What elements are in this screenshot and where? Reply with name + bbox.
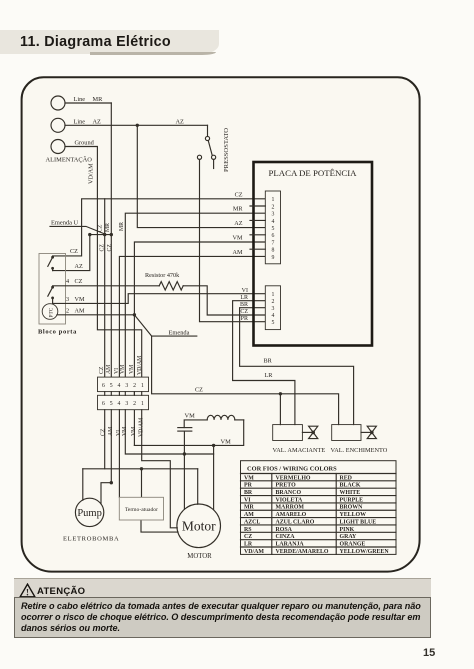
svg-text:PLACA DE POTÊNCIA: PLACA DE POTÊNCIA xyxy=(269,168,358,178)
color table grid xyxy=(241,473,397,475)
valve ENCHIMENTO symbol xyxy=(361,431,372,433)
svg-text:PRESSOSTATO: PRESSOSTATO xyxy=(223,128,230,172)
svg-text:VI: VI xyxy=(242,288,248,294)
svg-text:CZ: CZ xyxy=(235,191,243,198)
svg-text:GRAY: GRAY xyxy=(340,534,358,540)
svg-text:MR: MR xyxy=(119,222,125,231)
svg-text:CZ: CZ xyxy=(75,278,83,285)
svg-text:Line: Line xyxy=(74,96,86,103)
svg-text:CZ: CZ xyxy=(99,244,105,252)
wire AZ branch down to placa pin5 xyxy=(137,125,265,227)
svg-text:3: 3 xyxy=(271,306,274,312)
svg-text:ROSA: ROSA xyxy=(276,527,293,533)
svg-text:CZ: CZ xyxy=(70,248,78,255)
svg-text:PRETO: PRETO xyxy=(276,483,297,489)
svg-text:RED: RED xyxy=(340,475,352,481)
svg-text:PTC: PTC xyxy=(49,307,55,317)
wire CZ tap down to emenda U xyxy=(104,199,106,235)
svg-text:MR: MR xyxy=(93,96,104,103)
svg-text:Termo-atuador: Termo-atuador xyxy=(125,507,158,513)
node AZ junction xyxy=(136,124,139,127)
thermo actuator box xyxy=(119,497,163,520)
svg-text:Line: Line xyxy=(74,118,86,125)
svg-text:BR: BR xyxy=(240,302,248,308)
svg-text:2: 2 xyxy=(133,383,136,389)
color table frame xyxy=(241,461,397,555)
svg-text:1: 1 xyxy=(141,383,144,389)
wire BR placa pin3 to valve ENCHIMENTO xyxy=(240,308,354,425)
svg-text:1: 1 xyxy=(271,197,274,203)
node valve common junction xyxy=(279,392,282,395)
svg-text:1: 1 xyxy=(271,292,274,298)
wire AZ emenda U down to blocoporta xyxy=(53,235,90,271)
svg-text:CZ: CZ xyxy=(195,387,203,394)
resistor R1 470k xyxy=(159,282,183,290)
svg-text:VM: VM xyxy=(233,235,243,242)
wire capacitor junction down to motor xyxy=(183,454,185,509)
svg-text:Resistor 470k: Resistor 470k xyxy=(145,272,180,279)
svg-text:Ground: Ground xyxy=(75,140,95,147)
svg-text:VI: VI xyxy=(114,368,120,374)
stub CN1 pin2 xyxy=(250,205,265,207)
svg-text:Emenda U: Emenda U xyxy=(51,219,79,226)
svg-text:BLACK: BLACK xyxy=(340,483,361,489)
svg-text:AM: AM xyxy=(75,308,85,315)
svg-text:BROWN: BROWN xyxy=(340,505,364,511)
svg-text:LR: LR xyxy=(244,541,253,547)
svg-text:ELETROBOMBA: ELETROBOMBA xyxy=(63,536,119,543)
wire pressostato left contact down to placa PR pin5 xyxy=(200,160,266,322)
svg-text:WHITE: WHITE xyxy=(340,490,361,496)
svg-text:4: 4 xyxy=(118,401,121,407)
valve AMACIANTE body xyxy=(273,425,303,441)
svg-text:VAL. AMACIANTE: VAL. AMACIANTE xyxy=(273,447,326,454)
node motor right junction xyxy=(212,444,215,447)
svg-text:AZ: AZ xyxy=(234,220,242,227)
wire CZ block pin6 down to pump-motor line xyxy=(104,410,106,469)
node emenda splice dot xyxy=(133,313,136,316)
svg-text:CZ: CZ xyxy=(244,534,252,540)
svg-text:AZUL CLARO: AZUL CLARO xyxy=(276,519,315,525)
svg-text:2: 2 xyxy=(66,308,69,315)
warning text box xyxy=(14,597,431,638)
svg-text:VM: VM xyxy=(75,296,85,303)
svg-text:ALIMENTAÇÃO: ALIMENTAÇÃO xyxy=(46,156,93,164)
warning heading ATENÇÃO xyxy=(37,586,85,597)
node capacitor junction xyxy=(183,452,186,455)
wire AM block pin5 down to pump xyxy=(101,410,111,504)
svg-text:VD/AM: VD/AM xyxy=(139,418,145,437)
svg-text:2: 2 xyxy=(133,401,136,407)
terminal J2 Line AZ xyxy=(51,118,65,132)
wire MR vertical from Line MR to emenda U xyxy=(110,103,112,235)
valve ENCHIMENTO body xyxy=(332,425,361,441)
wire VM coil line xyxy=(134,420,243,446)
valve AMACIANTE symbol xyxy=(302,431,313,433)
svg-text:CZ: CZ xyxy=(99,366,105,374)
svg-text:CZ: CZ xyxy=(107,244,113,252)
svg-text:MR: MR xyxy=(244,505,255,511)
svg-text:VI: VI xyxy=(116,430,122,436)
svg-text:4: 4 xyxy=(66,278,69,285)
svg-text:1: 1 xyxy=(141,401,144,407)
svg-text:CZ: CZ xyxy=(101,428,107,436)
svg-text:VM: VM xyxy=(120,365,126,374)
wire VM placa pin7 long vertical to coil line xyxy=(134,242,265,445)
wire termo-atuador bottom to motor xyxy=(141,520,178,532)
svg-text:LR: LR xyxy=(240,295,248,301)
wire ground VD/AM down and over to block xyxy=(65,147,142,378)
wire CZ emenda U down to block pin6 xyxy=(104,235,106,378)
svg-text:6: 6 xyxy=(271,233,274,239)
svg-text:MR: MR xyxy=(233,206,244,213)
wire pump to motor line xyxy=(83,468,198,470)
svg-text:9: 9 xyxy=(271,255,274,261)
label pointer Emenda U xyxy=(50,226,104,233)
wire 3 VM blocoporta to placa VI pin1 xyxy=(53,294,266,304)
svg-text:MOTOR: MOTOR xyxy=(187,553,212,560)
svg-text:3: 3 xyxy=(125,401,128,407)
svg-text:PURPLE: PURPLE xyxy=(340,497,364,503)
svg-text:3: 3 xyxy=(125,383,128,389)
svg-text:4: 4 xyxy=(118,383,121,389)
svg-text:YELLOW: YELLOW xyxy=(340,512,367,518)
wire AM placa pin9 down to block pin4 xyxy=(119,256,265,377)
wire resistor to placa pin4 xyxy=(183,286,265,315)
svg-text:6: 6 xyxy=(102,383,105,389)
svg-text:LIGHT BLUE: LIGHT BLUE xyxy=(340,519,377,525)
page number xyxy=(423,647,435,659)
connector CN2 body xyxy=(265,286,280,330)
svg-text:YELLOW/GREEN: YELLOW/GREEN xyxy=(340,549,390,555)
svg-text:AM: AM xyxy=(233,249,243,256)
node emenda U dot 3 xyxy=(110,233,113,236)
svg-text:AM: AM xyxy=(244,512,254,518)
wire VD/AM block pin1 down to motor left xyxy=(142,410,178,528)
power board PLACA DE POTENCIA U1 xyxy=(254,162,373,346)
svg-text:Motor: Motor xyxy=(182,518,216,533)
svg-text:AZ: AZ xyxy=(93,118,102,125)
svg-text:AMARELO: AMARELO xyxy=(276,512,307,518)
svg-text:3: 3 xyxy=(271,212,274,218)
svg-text:AZ: AZ xyxy=(176,118,185,125)
svg-text:LARANJA: LARANJA xyxy=(276,541,305,547)
blocoporta housing xyxy=(39,254,66,325)
svg-text:CZ: CZ xyxy=(240,309,248,315)
svg-text:MR: MR xyxy=(105,223,111,232)
wire MR emenda U down to block pin5 xyxy=(110,235,112,378)
node emenda U dot 1 xyxy=(88,233,91,236)
terminal J3 Ground xyxy=(51,140,65,154)
wire VI block pin4 down to termo-atuador xyxy=(118,410,120,498)
svg-text:COR FIOS / WIRING COLORS: COR FIOS / WIRING COLORS xyxy=(247,465,337,472)
splice Emenda U bar xyxy=(90,234,112,236)
svg-text:AZCL: AZCL xyxy=(244,519,260,525)
wire block links xyxy=(104,392,106,396)
svg-text:PINK: PINK xyxy=(340,527,355,533)
wire junction down to motor xyxy=(213,445,215,510)
svg-text:Bloco porta: Bloco porta xyxy=(38,329,77,336)
stub CN1 pin8 xyxy=(250,248,265,250)
connector block CN3 xyxy=(98,377,149,392)
svg-text:4: 4 xyxy=(271,219,274,225)
wire tap down to termo-atuador xyxy=(141,469,143,498)
svg-text:ORANGE: ORANGE xyxy=(340,541,366,547)
svg-text:VD/AM: VD/AM xyxy=(88,163,95,184)
svg-text:VM: VM xyxy=(131,427,137,436)
motor M1 xyxy=(177,504,221,548)
svg-text:3: 3 xyxy=(66,296,69,303)
inductor L1 xyxy=(235,419,244,421)
connector block CN4 xyxy=(98,395,149,409)
svg-text:RS: RS xyxy=(244,527,252,533)
svg-text:6: 6 xyxy=(102,401,105,407)
svg-text:BR: BR xyxy=(264,358,273,365)
svg-text:5: 5 xyxy=(110,401,113,407)
svg-text:VI: VI xyxy=(244,497,251,503)
svg-text:8: 8 xyxy=(271,248,274,254)
pump P1 xyxy=(75,498,103,526)
svg-text:VM: VM xyxy=(221,438,232,445)
svg-text:2: 2 xyxy=(271,204,274,210)
svg-text:VM: VM xyxy=(185,412,196,419)
svg-text:BR: BR xyxy=(244,490,253,496)
svg-text:VM: VM xyxy=(122,427,128,436)
pressostato switch S1 xyxy=(207,125,209,136)
svg-text:VAL. ENCHIMENTO: VAL. ENCHIMENTO xyxy=(331,447,388,454)
connector CN1 body xyxy=(265,191,280,264)
wire pump left lead xyxy=(82,469,84,500)
svg-text:CZ: CZ xyxy=(98,224,104,232)
svg-text:PR: PR xyxy=(241,316,248,322)
svg-text:4: 4 xyxy=(271,313,274,319)
svg-text:CINZA: CINZA xyxy=(276,534,296,540)
svg-text:VD/AM: VD/AM xyxy=(244,549,264,555)
svg-text:VERMELHO: VERMELHO xyxy=(276,475,311,481)
svg-text:5: 5 xyxy=(271,320,274,326)
svg-text:2: 2 xyxy=(271,299,274,305)
svg-text:LR: LR xyxy=(265,372,274,379)
wire emenda diagonal xyxy=(134,315,151,336)
warning triangle icon xyxy=(20,584,35,597)
svg-text:Pump: Pump xyxy=(77,508,102,519)
wire Line AZ horizontal xyxy=(65,124,208,126)
svg-text:7: 7 xyxy=(271,240,274,246)
wire 2 AM from PTC xyxy=(57,314,134,316)
stub CN1 pin4 xyxy=(250,219,265,221)
door switch S3 xyxy=(51,286,54,289)
header bar xyxy=(0,30,219,54)
svg-text:AM: AM xyxy=(108,427,114,436)
wire common down to valve AMACIANTE xyxy=(279,394,281,425)
wire 4 CZ from blocoporta xyxy=(53,285,160,287)
svg-text:BRANCO: BRANCO xyxy=(276,490,302,496)
stub CN1 pin6 xyxy=(250,234,265,236)
svg-text:VERDE/AMARELO: VERDE/AMARELO xyxy=(276,549,329,555)
svg-text:VIOLETA: VIOLETA xyxy=(276,497,303,503)
label underline Emenda xyxy=(152,335,197,337)
svg-text:AZ: AZ xyxy=(75,263,83,270)
capacitor C1 xyxy=(178,427,192,429)
door switch S2 xyxy=(51,256,54,259)
wire MR placa pin3 down to block pin3 xyxy=(125,213,265,377)
svg-text:VM: VM xyxy=(129,365,135,374)
grey band bottom right xyxy=(14,578,431,598)
node termo-atuador tap xyxy=(140,467,143,470)
svg-text:PR: PR xyxy=(244,483,253,489)
svg-text:5: 5 xyxy=(110,383,113,389)
wire block pin3 down to motor line xyxy=(125,410,213,454)
wire LR placa pin2 to valve AMACIANTE xyxy=(233,301,295,425)
node emenda U dot 2 xyxy=(103,233,106,236)
wire CZ placa pin1 to blocoporta xyxy=(53,199,266,256)
svg-text:Emenda: Emenda xyxy=(169,329,190,336)
svg-text:MARROM: MARROM xyxy=(276,505,305,511)
svg-text:AM: AM xyxy=(106,365,112,374)
svg-text:VM: VM xyxy=(244,475,254,481)
terminal J1 Line MR xyxy=(51,96,65,110)
thermistor PTC xyxy=(42,304,58,320)
svg-text:VD/AM: VD/AM xyxy=(137,356,143,375)
wire Line MR to vertical xyxy=(65,102,111,104)
wire motor top lead xyxy=(197,469,199,504)
svg-text:5: 5 xyxy=(271,226,274,232)
wire emenda down to CZ valve line xyxy=(152,336,339,425)
